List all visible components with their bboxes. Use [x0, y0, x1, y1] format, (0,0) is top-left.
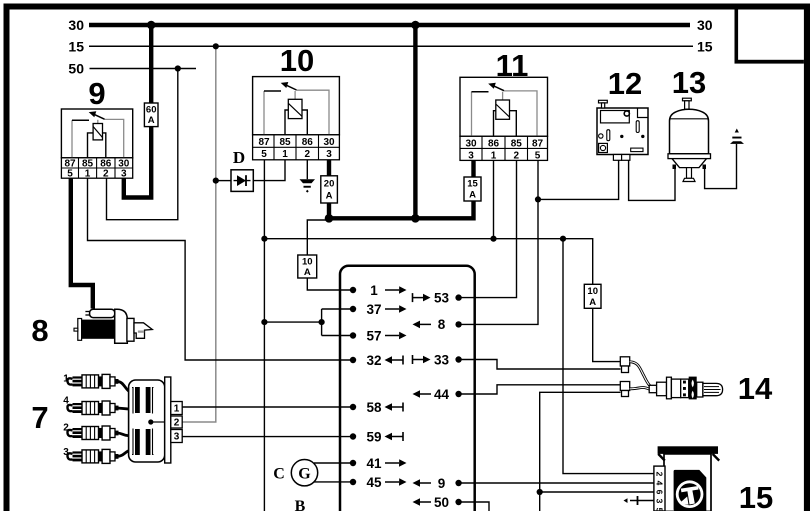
- svg-text:15: 15: [467, 179, 478, 190]
- svg-text:32: 32: [366, 353, 381, 368]
- svg-text:30: 30: [465, 139, 477, 150]
- svg-text:A: A: [304, 267, 311, 278]
- svg-text:D: D: [233, 148, 245, 167]
- svg-text:11: 11: [496, 48, 529, 83]
- svg-text:86: 86: [302, 137, 314, 148]
- svg-text:3: 3: [326, 149, 332, 160]
- svg-text:59: 59: [366, 429, 381, 444]
- svg-text:60: 60: [146, 104, 157, 115]
- svg-text:85: 85: [279, 137, 291, 148]
- svg-text:87: 87: [532, 139, 544, 150]
- svg-text:7: 7: [31, 400, 48, 435]
- svg-text:3: 3: [174, 432, 180, 443]
- svg-text:12: 12: [608, 66, 642, 101]
- svg-text:10: 10: [587, 286, 598, 297]
- svg-text:87: 87: [258, 137, 270, 148]
- svg-text:10: 10: [280, 43, 314, 78]
- svg-text:33: 33: [434, 352, 450, 367]
- svg-text:3: 3: [468, 151, 474, 162]
- svg-text:6: 6: [654, 490, 664, 495]
- svg-text:2: 2: [305, 149, 311, 160]
- svg-text:30: 30: [68, 17, 84, 33]
- svg-text:1: 1: [174, 404, 180, 415]
- svg-text:58: 58: [366, 400, 382, 415]
- svg-text:5: 5: [535, 151, 541, 162]
- svg-text:15: 15: [697, 39, 713, 55]
- svg-text:8: 8: [438, 317, 446, 332]
- svg-text:10: 10: [302, 256, 313, 267]
- svg-text:9: 9: [88, 76, 105, 111]
- svg-text:5: 5: [261, 149, 267, 160]
- svg-text:50: 50: [68, 61, 84, 77]
- svg-text:8: 8: [31, 313, 48, 348]
- svg-text:4: 4: [654, 481, 664, 486]
- svg-text:1: 1: [85, 169, 91, 180]
- svg-text:1: 1: [491, 151, 497, 162]
- svg-text:2: 2: [654, 472, 664, 477]
- svg-text:45: 45: [366, 475, 382, 490]
- svg-text:44: 44: [434, 387, 450, 402]
- svg-text:30: 30: [697, 17, 713, 33]
- svg-text:3: 3: [121, 169, 127, 180]
- svg-text:15: 15: [739, 480, 773, 511]
- svg-text:2: 2: [514, 151, 520, 162]
- svg-text:41: 41: [366, 456, 382, 471]
- svg-text:50: 50: [434, 495, 449, 510]
- svg-text:20: 20: [324, 179, 335, 190]
- svg-text:5: 5: [67, 169, 73, 180]
- svg-text:30: 30: [323, 137, 335, 148]
- svg-text:13: 13: [672, 65, 706, 100]
- svg-text:1: 1: [370, 283, 378, 298]
- svg-text:C: C: [273, 466, 285, 483]
- svg-text:14: 14: [738, 371, 773, 406]
- svg-text:9: 9: [438, 476, 446, 491]
- svg-text:2: 2: [174, 418, 180, 429]
- svg-text:85: 85: [511, 139, 523, 150]
- svg-text:2: 2: [103, 169, 109, 180]
- svg-text:5: 5: [654, 508, 664, 511]
- svg-text:A: A: [148, 115, 155, 126]
- svg-text:G: G: [298, 466, 311, 483]
- svg-text:53: 53: [434, 290, 450, 305]
- svg-text:86: 86: [488, 139, 500, 150]
- svg-text:3: 3: [654, 499, 664, 504]
- svg-text:A: A: [469, 190, 476, 201]
- svg-text:B: B: [295, 498, 306, 511]
- svg-text:A: A: [589, 297, 596, 308]
- svg-text:A: A: [326, 190, 333, 201]
- svg-text:37: 37: [366, 302, 381, 317]
- svg-text:57: 57: [366, 328, 381, 343]
- svg-text:15: 15: [68, 39, 84, 55]
- svg-text:1: 1: [282, 149, 288, 160]
